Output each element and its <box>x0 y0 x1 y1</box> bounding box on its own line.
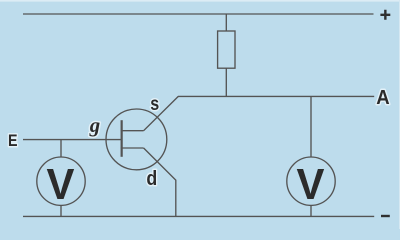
svg-text:V: V <box>296 160 324 209</box>
transistor T1 drain lead <box>121 147 144 149</box>
label s (source) <box>150 93 159 115</box>
label d (drain) <box>146 168 157 190</box>
label g (gate) <box>89 114 100 137</box>
voltmeter V1 label V <box>46 160 74 209</box>
wire bottom - supply rail <box>23 215 374 217</box>
transistor T1 body circle <box>106 109 167 170</box>
svg-text:E: E <box>8 132 18 150</box>
svg-text:V: V <box>46 160 74 209</box>
voltmeter V1 body circle <box>37 157 85 205</box>
svg-text:s: s <box>150 93 159 115</box>
wire input E to gate <box>23 139 121 141</box>
svg-text:A: A <box>376 86 389 109</box>
wire voltmeter V1 to bottom rail <box>60 205 62 216</box>
label + supply terminal <box>380 10 390 20</box>
wire node A line down to voltmeter V2 <box>310 96 312 157</box>
wire drain diagonal down to bottom rail <box>144 148 176 216</box>
voltmeter V2 body circle <box>287 157 335 205</box>
label output terminal A <box>376 86 389 109</box>
resistor R1 (load resistor) <box>218 31 235 68</box>
transistor T1 channel bar <box>121 120 123 157</box>
label input terminal E <box>8 132 18 150</box>
wire voltmeter V2 to bottom rail <box>310 205 312 216</box>
wire output node A horizontal line <box>178 95 374 97</box>
svg-text:d: d <box>146 168 157 190</box>
svg-text:g: g <box>89 114 100 137</box>
wire top + supply rail <box>23 13 374 15</box>
voltmeter V2 label V <box>296 160 324 209</box>
wire junction input line down to voltmeter V1 <box>60 140 62 158</box>
label - supply terminal <box>381 215 390 217</box>
wire resistor bottom to output node A line <box>225 68 227 96</box>
wire supply rail down to resistor top <box>225 14 227 31</box>
wire source diagonal from transistor to node A line <box>144 96 179 130</box>
transistor T1 source lead <box>121 130 144 132</box>
